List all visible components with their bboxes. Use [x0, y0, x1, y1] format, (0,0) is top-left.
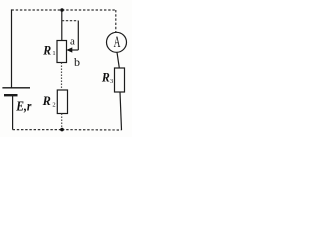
svg-text:R: R: [42, 93, 51, 108]
svg-text:2: 2: [52, 101, 55, 108]
svg-text:a: a: [70, 36, 75, 48]
svg-text:R: R: [101, 70, 110, 85]
svg-text:b: b: [74, 55, 80, 69]
svg-text:A: A: [114, 34, 121, 51]
svg-text:1: 1: [52, 50, 55, 57]
svg-text:3: 3: [110, 78, 113, 85]
svg-text:R: R: [42, 42, 51, 57]
svg-text:E,r: E,r: [15, 99, 31, 114]
